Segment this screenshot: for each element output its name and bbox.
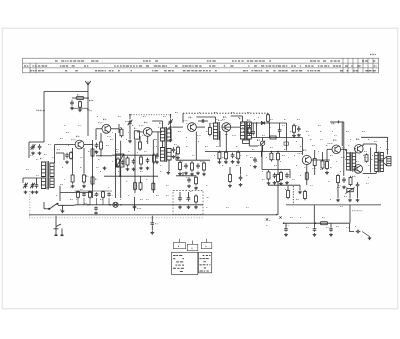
resistor R34	[326, 160, 329, 171]
component value label b17	[296, 124, 298, 126]
component value label 120	[100, 198, 103, 200]
junction S2 gnd	[119, 175, 121, 177]
wire det drop	[261, 146, 263, 170]
chassis bus lower line	[29, 215, 277, 217]
capacitor C13	[146, 158, 150, 164]
wire S2 drop	[119, 167, 121, 176]
resistor R40	[320, 222, 329, 225]
ground below R14	[139, 167, 143, 170]
ground below C7	[65, 161, 69, 164]
component value label 46	[160, 170, 162, 172]
title table divider 6	[367, 58, 369, 73]
capacitor C20	[196, 163, 200, 169]
transformer S1 label	[40, 157, 42, 160]
component value label 89	[48, 143, 51, 145]
component value label 5	[125, 120, 128, 122]
transformer core S3 core	[165, 127, 166, 162]
wire TS2 collector	[111, 128, 119, 130]
component value label 73	[320, 130, 322, 132]
wire C38 feed	[285, 223, 287, 227]
capacitor C21	[187, 177, 191, 183]
component value label 69	[243, 130, 246, 132]
value label AF117	[139, 125, 144, 127]
component value label b71	[166, 194, 169, 196]
component value label 98	[132, 124, 134, 126]
resistor R28	[293, 124, 296, 134]
transistor TS1	[75, 140, 84, 149]
wire neutralizing	[198, 120, 208, 122]
table body text left row 6	[180, 271, 183, 273]
component value label 105	[222, 164, 224, 166]
component value label 125	[246, 154, 248, 156]
component value label b52	[108, 186, 110, 188]
component value label 114	[356, 160, 359, 162]
junction mid rail a	[261, 151, 263, 153]
wire AGC line	[183, 112, 268, 114]
resistor R16	[177, 145, 180, 155]
component value label b32	[128, 150, 130, 152]
wire rail drop a	[175, 152, 177, 160]
table row3 text cluster a	[30, 70, 44, 72]
component value label b56	[186, 176, 188, 178]
table row2 text cluster f	[305, 65, 341, 67]
component value label 111	[312, 144, 315, 146]
transistor TS4 label	[189, 116, 193, 119]
wire S3 sec to base	[168, 127, 170, 129]
component value label 119	[84, 202, 87, 204]
wire lower rail input	[60, 192, 93, 194]
ground below R5	[71, 185, 75, 188]
measurement point a	[266, 218, 268, 220]
wire S5 sec down	[248, 139, 250, 146]
wire C34 top	[179, 192, 181, 196]
wire drop at 134	[134, 197, 136, 211]
component value label 76	[380, 146, 381, 148]
resistor R24	[203, 161, 206, 172]
component value label 30	[252, 148, 254, 150]
wire TS8 col	[363, 143, 376, 145]
component value label b14	[256, 124, 258, 126]
component value label 1	[60, 137, 63, 139]
capacitor C37	[329, 227, 333, 232]
value label MP	[269, 219, 271, 221]
capacitor C34	[178, 196, 182, 202]
component value label 106	[236, 164, 239, 166]
component value label 82	[336, 225, 339, 227]
wire cluster right drop	[289, 170, 291, 179]
component value label b12	[228, 122, 231, 124]
wire link	[299, 185, 301, 190]
component value label 47	[180, 160, 183, 162]
wire coil top feed	[54, 145, 56, 164]
component value label 121	[120, 198, 121, 200]
transformer winding S3 secondary upper	[167, 129, 171, 141]
wire part row drop 1	[77, 198, 79, 205]
component value label 18	[57, 148, 60, 150]
component value label b1	[64, 124, 66, 126]
component value label 36	[345, 158, 348, 160]
component value label b40	[256, 160, 258, 162]
component value label 71	[290, 130, 293, 132]
wire det gnd rail	[268, 184, 300, 186]
wire TS7 col to S6	[341, 148, 347, 150]
resistor R11	[117, 157, 120, 168]
value label AC128	[328, 142, 333, 144]
resistor R10	[100, 140, 103, 151]
wire S7 top in	[375, 144, 377, 153]
wire base drop	[95, 129, 97, 140]
component value label b2	[78, 124, 81, 126]
transformer core S6 core	[351, 152, 352, 171]
component value label 3	[97, 115, 98, 117]
ground below R23	[190, 173, 194, 176]
component value label b73	[206, 206, 208, 208]
component value label b53	[126, 180, 128, 182]
capacitor C35	[187, 196, 191, 202]
resistor R23	[191, 161, 194, 172]
trimmer arrow of C8 tuning gang a	[128, 120, 133, 126]
resistor R5 2,7k	[71, 173, 74, 184]
component value label 101	[168, 140, 169, 142]
ground det rail	[298, 191, 302, 194]
component value label 118	[70, 198, 73, 200]
loudspeaker LS	[384, 157, 391, 166]
transformer winding S5 secondary	[247, 122, 251, 139]
wire TS3 to S3	[152, 120, 162, 122]
chassis dotted left vertical	[29, 191, 31, 218]
table body text left row 3	[176, 261, 183, 263]
driver transformer label	[345, 149, 347, 152]
transistor TS6	[302, 155, 311, 164]
junction bias	[100, 155, 102, 157]
junction supply node	[87, 109, 89, 111]
wire TS1 emitter drop	[72, 148, 74, 173]
wire bottom supply rail mid	[75, 204, 204, 206]
table row1 text cluster d	[232, 60, 271, 62]
wire S6 in top	[346, 149, 348, 153]
ground below S3	[166, 171, 170, 174]
IF transformer S5 label	[239, 117, 241, 120]
component value label b75	[246, 206, 249, 208]
value label R35	[363, 154, 366, 156]
voltage label 1	[107, 135, 111, 137]
component value label 41	[60, 183, 63, 185]
component value label 103	[198, 140, 199, 142]
node label +4,5V	[37, 109, 43, 112]
table body text left row 2	[173, 258, 184, 260]
antenna	[85, 81, 91, 85]
wire x278 upper	[277, 160, 279, 175]
capacitor C39	[356, 230, 361, 234]
ground below R31	[267, 182, 271, 185]
component value label 19	[62, 166, 63, 168]
IF transformer S3 label	[159, 122, 161, 125]
ground below C34	[178, 206, 182, 209]
wire decoupling rail	[72, 97, 88, 99]
component value label 91	[30, 146, 31, 148]
component value label 128	[296, 140, 297, 142]
component value label b29	[80, 156, 83, 158]
junction det a	[256, 122, 258, 124]
wire to coil	[28, 142, 30, 158]
table body text right row 1	[203, 255, 211, 257]
capacitor C53	[95, 192, 99, 196]
wire S6 to TS9 base	[354, 168, 356, 170]
wire decoupling lower link	[72, 107, 88, 109]
wire tap	[56, 152, 64, 154]
value label AF117	[183, 120, 188, 122]
capacitor C5 trimmer	[31, 183, 35, 189]
component value label 53	[280, 160, 281, 162]
component value label b48	[380, 160, 383, 162]
transistor TS6 label	[303, 148, 307, 151]
wire x230 link	[229, 167, 231, 175]
ground below R24	[202, 173, 206, 176]
trimmer arrow of C11 tuning gang b	[168, 119, 173, 125]
ground below R19	[224, 161, 228, 164]
wire C18 top	[252, 123, 254, 130]
ground below C12	[132, 168, 136, 171]
ground below C36	[313, 233, 317, 236]
component value label 29	[236, 145, 238, 147]
transistor TS8 label	[356, 138, 360, 141]
table row1 text cluster f	[362, 60, 375, 62]
component value label 117	[56, 194, 57, 196]
ground below R34	[325, 171, 329, 174]
transformer core S4 core	[218, 122, 219, 140]
resistor R14	[140, 155, 143, 166]
component value label 126	[258, 144, 261, 146]
component value label 61	[190, 190, 192, 192]
ground below gang a	[128, 140, 132, 143]
transformer core S5 core	[245, 121, 246, 140]
capacitor C28	[342, 177, 346, 183]
component value label b25	[30, 154, 33, 156]
resistor R18b	[270, 151, 273, 161]
table body text right row 2	[200, 258, 209, 260]
wire C37 feed	[330, 223, 332, 227]
component value label b51	[90, 180, 93, 182]
junction column/collector	[92, 144, 94, 146]
component value label b21	[348, 144, 350, 146]
component value label b47	[368, 164, 371, 166]
wire C23 top	[279, 123, 281, 128]
component value label b28	[64, 178, 65, 180]
ground below C3	[38, 152, 42, 155]
component value label 116	[386, 148, 389, 150]
transformer winding S1 secondary upper	[50, 163, 54, 177]
wire supply pair line	[341, 122, 343, 146]
capacitor C15	[172, 147, 176, 153]
wire input top	[29, 141, 44, 143]
wire R29 top	[314, 150, 316, 157]
table body text right row 3	[204, 261, 206, 263]
capacitor C7	[65, 153, 69, 159]
title table divider left2	[35, 63, 37, 73]
table row3 text cluster c	[95, 70, 132, 72]
wire det rail	[262, 169, 290, 171]
table body text right row 4	[200, 264, 211, 266]
capacitor C24	[297, 126, 301, 132]
component value label 37	[364, 150, 367, 152]
transformer winding S6 primary	[347, 153, 350, 170]
transformer core S7 core	[378, 152, 379, 173]
component value label b80	[346, 226, 349, 228]
transformer winding S7 primary	[375, 153, 378, 172]
capacitor C1 trimmer	[31, 144, 35, 150]
wire det right drop	[286, 123, 288, 151]
component value label 14	[270, 118, 273, 120]
ground below R11	[103, 167, 107, 170]
capacitor C31	[94, 206, 98, 210]
ground below C26	[285, 181, 289, 184]
junction lamp right	[120, 204, 122, 206]
wire jack feed	[151, 216, 153, 221]
junction gang b	[170, 114, 172, 116]
table row1 text cluster c	[207, 60, 216, 62]
wire jack lower	[151, 226, 153, 231]
capacitor C8 tuning gang a	[128, 120, 132, 126]
component value label b35	[176, 150, 178, 152]
resistor R22	[179, 161, 182, 172]
wire antenna drop	[87, 85, 89, 136]
junction mid rail b	[271, 151, 273, 153]
wire spk a	[379, 159, 384, 161]
wire IF gnd rail	[176, 175, 196, 177]
capacitor C26	[285, 173, 289, 179]
component value label 86	[241, 122, 243, 124]
resistor R31	[267, 170, 270, 181]
component value label 93	[48, 170, 51, 172]
component value label b54	[146, 178, 148, 180]
title table divider 2	[347, 58, 349, 73]
ground below C38	[284, 233, 288, 236]
bus right end junction	[276, 214, 278, 216]
ground below C5	[31, 191, 35, 194]
ground below R18	[218, 161, 222, 164]
component value label b74	[226, 206, 229, 208]
component value label 27	[205, 145, 208, 147]
component value label b24	[386, 140, 387, 142]
wire switch feed	[43, 202, 45, 209]
table body text right row 6	[200, 270, 209, 272]
ground below R39	[194, 206, 198, 209]
wire top rail left	[44, 91, 88, 93]
component value label b65	[60, 208, 62, 210]
component value label 134	[374, 140, 377, 142]
table row2 text cluster c	[114, 65, 167, 67]
ground below R23b	[228, 184, 232, 187]
wire diagonal to ground	[362, 232, 369, 237]
resistor R15	[153, 153, 156, 164]
capacitor C25	[273, 173, 277, 179]
title table divider 1	[342, 58, 344, 73]
capacitor C11 tuning gang b	[169, 119, 173, 125]
component value label 10	[214, 111, 217, 113]
transistor TS9 label	[352, 175, 356, 178]
junction mid rail c	[277, 151, 279, 153]
connector table cell 1	[173, 243, 185, 249]
transistor TS1 label	[76, 135, 80, 138]
wire TS3 emitter drop	[147, 136, 149, 144]
label Pb	[90, 109, 92, 112]
cell 3 pin label	[206, 245, 207, 248]
wire T2 bias column a	[114, 133, 116, 198]
wire R36 down	[337, 183, 339, 198]
wire audio rail top	[251, 137, 302, 139]
transformer winding S6 secondary	[352, 153, 355, 170]
voltage label 7	[364, 156, 368, 158]
component value label b57	[206, 184, 208, 186]
wire part row drop 2	[83, 198, 85, 205]
table row1 text cluster b	[143, 60, 158, 62]
wire pot top	[262, 138, 264, 142]
wire bias column	[343, 146, 345, 176]
wire TS5 col to S5	[231, 115, 243, 117]
wire R30 top	[322, 152, 324, 161]
component value label 35	[330, 154, 333, 156]
connector table cell 3	[201, 243, 212, 249]
wire to detector	[249, 145, 258, 147]
wire bias rail	[96, 155, 112, 157]
component value label b39	[240, 154, 242, 156]
resistor R50	[77, 191, 80, 199]
chassis dotted line	[29, 217, 203, 219]
component value label b66	[76, 198, 78, 200]
component value label 122	[140, 198, 143, 200]
component value label b20	[334, 134, 337, 136]
component value label 54	[296, 164, 297, 166]
transformer winding S4 primary	[213, 123, 217, 139]
component value label 108	[262, 170, 263, 172]
voltage label 3	[197, 134, 201, 136]
dashed enclosure	[173, 190, 203, 214]
wire S3 mid link	[162, 141, 164, 148]
component value label 21	[98, 158, 100, 160]
component value label b68	[110, 194, 113, 196]
junction antenna/rail	[87, 97, 89, 99]
wire left drop	[43, 92, 45, 143]
resistor R41	[287, 189, 290, 200]
value label R7	[95, 150, 97, 153]
ground below C19	[184, 172, 188, 175]
voltage label 5	[312, 167, 316, 169]
diode GR2 detector diode	[261, 122, 264, 125]
pilot lamp LA	[113, 202, 118, 207]
transformer winding S1 secondary lower	[50, 178, 54, 188]
component value label b44	[320, 160, 322, 162]
component value label 81	[300, 216, 301, 218]
component value label 11	[231, 111, 234, 113]
table body text left row 1	[173, 255, 182, 257]
component value label b63	[346, 186, 348, 188]
component value label 43	[100, 170, 101, 172]
wire stub2	[36, 178, 38, 183]
component value label 78	[296, 198, 299, 200]
component value label 104	[214, 154, 215, 156]
wire x240 link	[240, 167, 242, 175]
transformer winding S3 primary upper	[160, 128, 164, 141]
wire T2 bias column b	[120, 141, 122, 198]
wire S4 to TS5	[222, 126, 240, 128]
component value label b11	[216, 118, 219, 120]
capacitor C55	[107, 192, 111, 196]
value label AF117	[98, 122, 103, 124]
ground below gang b	[169, 139, 173, 142]
wire battery top	[330, 121, 344, 123]
resistor R15b	[152, 181, 155, 191]
resistor R8 3,9k	[91, 175, 94, 186]
